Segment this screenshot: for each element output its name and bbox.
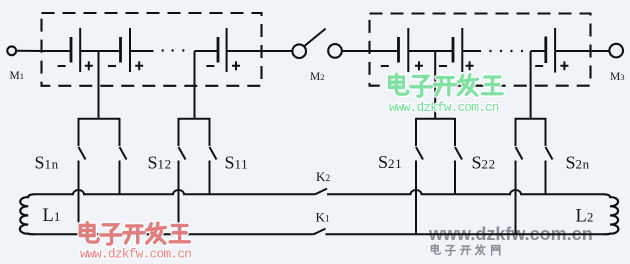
switch A right bottom wire to K2 line — [119, 161, 121, 195]
switch S1n left branch top — [78, 118, 80, 146]
wire B22 right — [462, 50, 481, 52]
battery cell B11 negative plate — [70, 37, 73, 63]
battery cell B22 positive plate — [461, 28, 463, 72]
switch S1n blade — [79, 147, 86, 160]
battery cell B21 positive plate — [407, 28, 409, 72]
watermark gray 电子开发网 (bottom right) — [431, 244, 499, 255]
inductor L2 coil — [604, 194, 619, 234]
switch K1 blade — [314, 229, 326, 235]
tap wire D down from pack2 — [530, 51, 532, 119]
wire B23 to pack2 edge — [555, 50, 590, 52]
wire pack2 entry to B21 — [370, 50, 399, 52]
wire tap corner to B23 — [531, 50, 546, 52]
B22 minus — [439, 65, 447, 67]
B21 plus — [415, 61, 423, 70]
battery cell B11 positive plate — [79, 28, 81, 72]
switch A right branch top — [119, 118, 121, 146]
switch group B bar — [179, 118, 210, 120]
wire B13 to pack1 edge — [227, 50, 262, 52]
switch S2n blade — [546, 147, 553, 160]
wire M2 to pack2 — [342, 50, 370, 52]
switch group C bar — [416, 118, 455, 120]
tap wire B down from pack1 — [194, 51, 196, 119]
svg-text:L2: L2 — [576, 207, 594, 227]
K1 bus line — [34, 233, 605, 235]
svg-text:L1: L1 — [43, 206, 61, 226]
B23 plus — [560, 61, 568, 70]
wire pack2 to M3 — [591, 50, 610, 52]
switch S12 blade — [179, 147, 186, 160]
switch S2n branch top — [545, 118, 547, 146]
switch group A bar — [79, 118, 120, 120]
switch S11 branch top — [209, 118, 211, 146]
B13 minus — [206, 65, 214, 67]
battery pack 1 dashed box — [42, 13, 262, 86]
switch S22 bottom wire to K1 line — [515, 161, 517, 235]
svg-text:M2: M2 — [310, 71, 324, 83]
svg-text:M3: M3 — [610, 71, 624, 83]
main switch open blade — [304, 29, 326, 47]
switch A right blade — [120, 147, 127, 160]
battery cell B12 negative plate — [119, 37, 122, 63]
wire tap corner to B13 — [195, 50, 219, 52]
B22 plus — [466, 61, 474, 70]
series dots pack1 — [162, 49, 185, 51]
battery cell B23 positive plate — [554, 28, 556, 73]
K2 bus line with hop-overs — [34, 190, 605, 194]
battery cell B13 negative plate — [217, 37, 220, 63]
switch S22 left branch top — [515, 118, 517, 146]
switch S21 blade — [416, 147, 423, 160]
B12 minus — [108, 65, 116, 67]
switch S11 blade — [210, 147, 217, 160]
switch C right bottom wire to K2 line — [454, 161, 456, 195]
battery cell B22 negative plate — [452, 37, 455, 63]
B21 minus — [381, 65, 389, 67]
battery cell B21 negative plate — [397, 37, 400, 63]
main switch pivot circle — [292, 44, 306, 58]
wire B11 to B12 with tap — [80, 50, 120, 52]
switch S12 bottom wire to K1 line — [178, 161, 180, 235]
terminal M3 — [609, 44, 623, 58]
B13 plus — [232, 61, 240, 70]
terminal M2 — [328, 44, 342, 58]
wire M1 to pack1 — [17, 50, 42, 52]
battery cell B12 positive plate — [129, 28, 131, 72]
B12 plus — [135, 61, 143, 70]
switch S21 left branch top — [415, 118, 417, 146]
switch S11 bottom wire to K2 line — [209, 161, 211, 195]
watermark gray www.dzkfw.com.cn (bottom right, under wires) — [428, 224, 593, 244]
watermark green 电子开发王 (over pack2) — [390, 74, 503, 96]
tap wire A down from pack1 — [98, 51, 100, 119]
battery pack 2 dashed box — [370, 14, 591, 86]
tap wire C down from pack2 — [434, 51, 436, 119]
svg-text:www.dzkfw.com.cn: www.dzkfw.com.cn — [80, 247, 191, 262]
battery cell B13 positive plate — [226, 28, 228, 72]
wire B12 right — [130, 50, 154, 52]
switch S21 bottom wire to K1 line — [415, 161, 417, 235]
series dots pack2 — [489, 50, 523, 52]
svg-text:www.dzkfw.com.cn: www.dzkfw.com.cn — [389, 100, 499, 115]
switch C right branch top — [454, 118, 456, 146]
switch S22 blade — [516, 147, 523, 160]
switch K2 blade — [315, 189, 327, 195]
switch S12 left branch top — [178, 118, 180, 146]
wire pack1 entry to cell B11 — [42, 50, 72, 52]
battery cell B23 negative plate — [544, 37, 547, 64]
inductor L1 coil — [20, 194, 35, 234]
switch S1n bottom wire to K1 line — [78, 161, 80, 235]
B11 minus — [58, 65, 66, 67]
switch S2n bottom wire to K2 line — [545, 161, 547, 195]
wire B21 to B22 with tap — [408, 50, 453, 52]
terminal M1 — [7, 46, 16, 55]
B11 plus — [85, 61, 93, 70]
svg-text:M1: M1 — [10, 70, 24, 82]
wire pack1 to switch pivot — [262, 50, 293, 52]
watermark red 电子开发王 (bottom left, over K1 line) — [80, 223, 189, 245]
switch group D bar — [516, 118, 546, 120]
B23 minus — [535, 65, 543, 67]
switch C right blade — [455, 147, 462, 160]
